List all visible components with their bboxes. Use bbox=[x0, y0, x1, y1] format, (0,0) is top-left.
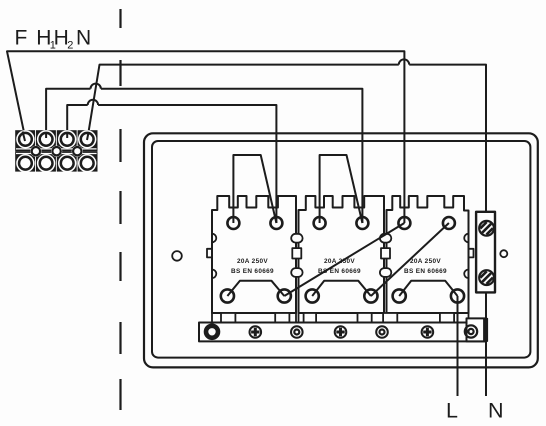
svg-text:20A 250V: 20A 250V bbox=[324, 258, 355, 265]
module3 right edge bump lower bbox=[464, 270, 468, 279]
switch2 terminal bottom-left bbox=[306, 289, 319, 302]
svg-text:20A 250V: 20A 250V bbox=[237, 258, 268, 265]
svg-text:20A 250V: 20A 250V bbox=[410, 258, 441, 265]
strap wire switch1 bottom-right to switch3 top-left bbox=[284, 223, 404, 296]
earth bar screw terminal 3 bbox=[422, 326, 434, 338]
svg-text:BS EN 60669: BS EN 60669 bbox=[231, 268, 274, 275]
wire F: terminal block col1 up to top line, right, down into switch3 top-left bbox=[7, 51, 404, 223]
divider oval upper between module2 and 3 bbox=[380, 234, 391, 243]
mounting box outer outline bbox=[144, 133, 538, 367]
terminal block inner white reliefs bbox=[16, 130, 96, 172]
wire hop on H2 line over N slant bbox=[88, 100, 98, 105]
supply terminal block bbox=[15, 130, 97, 171]
module3 right edge bump upper bbox=[464, 234, 468, 243]
divider lug between module2 and 3 bbox=[381, 248, 390, 258]
wire N from terminal block to neutral bar (drawn under neutral bar) bbox=[87, 65, 486, 396]
wire H2: block col3 up, right, down into switch1 top-right (with hop gap) bbox=[67, 105, 276, 223]
wire hop on N line over F drop bbox=[399, 59, 409, 64]
terminal block wire stubs into holes bbox=[23, 132, 89, 142]
switch module 2 outline bbox=[299, 196, 385, 313]
neutral terminal bar bbox=[476, 212, 495, 293]
switch module 1 outline bbox=[212, 196, 296, 313]
switch1 terminal bottom-right bbox=[278, 289, 291, 302]
strap wire switch2 bottom-right to switch3 top-right bbox=[371, 223, 449, 296]
mounting hole right bbox=[500, 250, 507, 257]
switch3 terminal bottom-right bbox=[451, 289, 464, 302]
module1 left edge bump lower bbox=[212, 270, 216, 279]
divider oval lower between module2 and 3 bbox=[380, 268, 391, 277]
module1 left edge bump upper bbox=[212, 234, 216, 243]
terminal block middle screw halos bbox=[30, 146, 83, 157]
switch2 terminal bottom-right bbox=[364, 289, 377, 302]
earth bar ring terminal 1 bbox=[291, 326, 303, 338]
switch3 terminal bottom-left bbox=[393, 289, 406, 302]
earth bar tabs bbox=[221, 313, 235, 323]
earth bar right end cap bbox=[484, 318, 488, 341]
switch3 terminal top-left bbox=[398, 217, 410, 229]
svg-text:FH1H2N: FH1H2N bbox=[15, 26, 92, 51]
link wire switch1 top-left to top-right bbox=[233, 155, 276, 223]
earth bar big terminal bbox=[206, 326, 218, 338]
svg-text:N: N bbox=[488, 399, 504, 423]
neutral bar screw lower bbox=[479, 270, 494, 285]
earth bar ring terminal 2 bbox=[376, 326, 388, 338]
earth bar ring terminal 3 bbox=[465, 325, 477, 337]
mounting hole left bbox=[172, 251, 182, 261]
earth bar screw terminal 1 bbox=[250, 326, 262, 338]
switch2 terminal top-right bbox=[356, 217, 368, 229]
link wire switch3 bottom terminals bbox=[399, 281, 457, 296]
svg-text:BS EN 60669: BS EN 60669 bbox=[404, 268, 447, 275]
switch3 terminal top-right bbox=[443, 217, 455, 229]
earth bar bbox=[199, 323, 486, 342]
link wire switch2 bottom terminals bbox=[312, 281, 371, 296]
link wire switch2 top-left to top-right bbox=[320, 155, 363, 223]
wire L from switch3 bottom-right down to label bbox=[457, 296, 459, 396]
svg-text:L: L bbox=[446, 399, 458, 423]
terminal block bottom hole circles bbox=[19, 157, 32, 170]
divider oval upper between module1 and 2 bbox=[291, 234, 302, 243]
switch2 terminal top-left bbox=[314, 217, 326, 229]
module3 right edge lug bbox=[469, 249, 474, 258]
dashed boundary line bbox=[119, 9, 121, 410]
neutral bar screw upper bbox=[479, 221, 494, 236]
switch1 terminal top-right bbox=[270, 217, 282, 229]
switch1 terminal top-left bbox=[227, 217, 239, 229]
svg-text:BS EN 60669: BS EN 60669 bbox=[318, 268, 361, 275]
switch module 3 outline bbox=[387, 196, 469, 313]
switch1 terminal bottom-left bbox=[221, 289, 234, 302]
link wire switch1 bottom terminals bbox=[227, 281, 284, 296]
earth bar screw terminal 2 bbox=[335, 326, 347, 338]
mounting box inner outline bbox=[152, 141, 530, 358]
wire H1: block col2 up, right, down into switch2 top-right (with hop gap) bbox=[46, 89, 362, 223]
earth bar raised right section bbox=[467, 318, 487, 341]
divider lug between module1 and 2 bbox=[292, 248, 301, 258]
module1 left edge lug bbox=[207, 249, 212, 258]
wire hop on H1 line over N slant bbox=[91, 84, 101, 89]
divider oval lower between module1 and 2 bbox=[291, 268, 302, 277]
terminal block middle seam lines bbox=[16, 149, 97, 154]
terminal block top hole circles bbox=[19, 133, 94, 170]
module divider stubs down to earth bar bbox=[212, 313, 469, 324]
terminal block middle screws bbox=[32, 147, 82, 155]
